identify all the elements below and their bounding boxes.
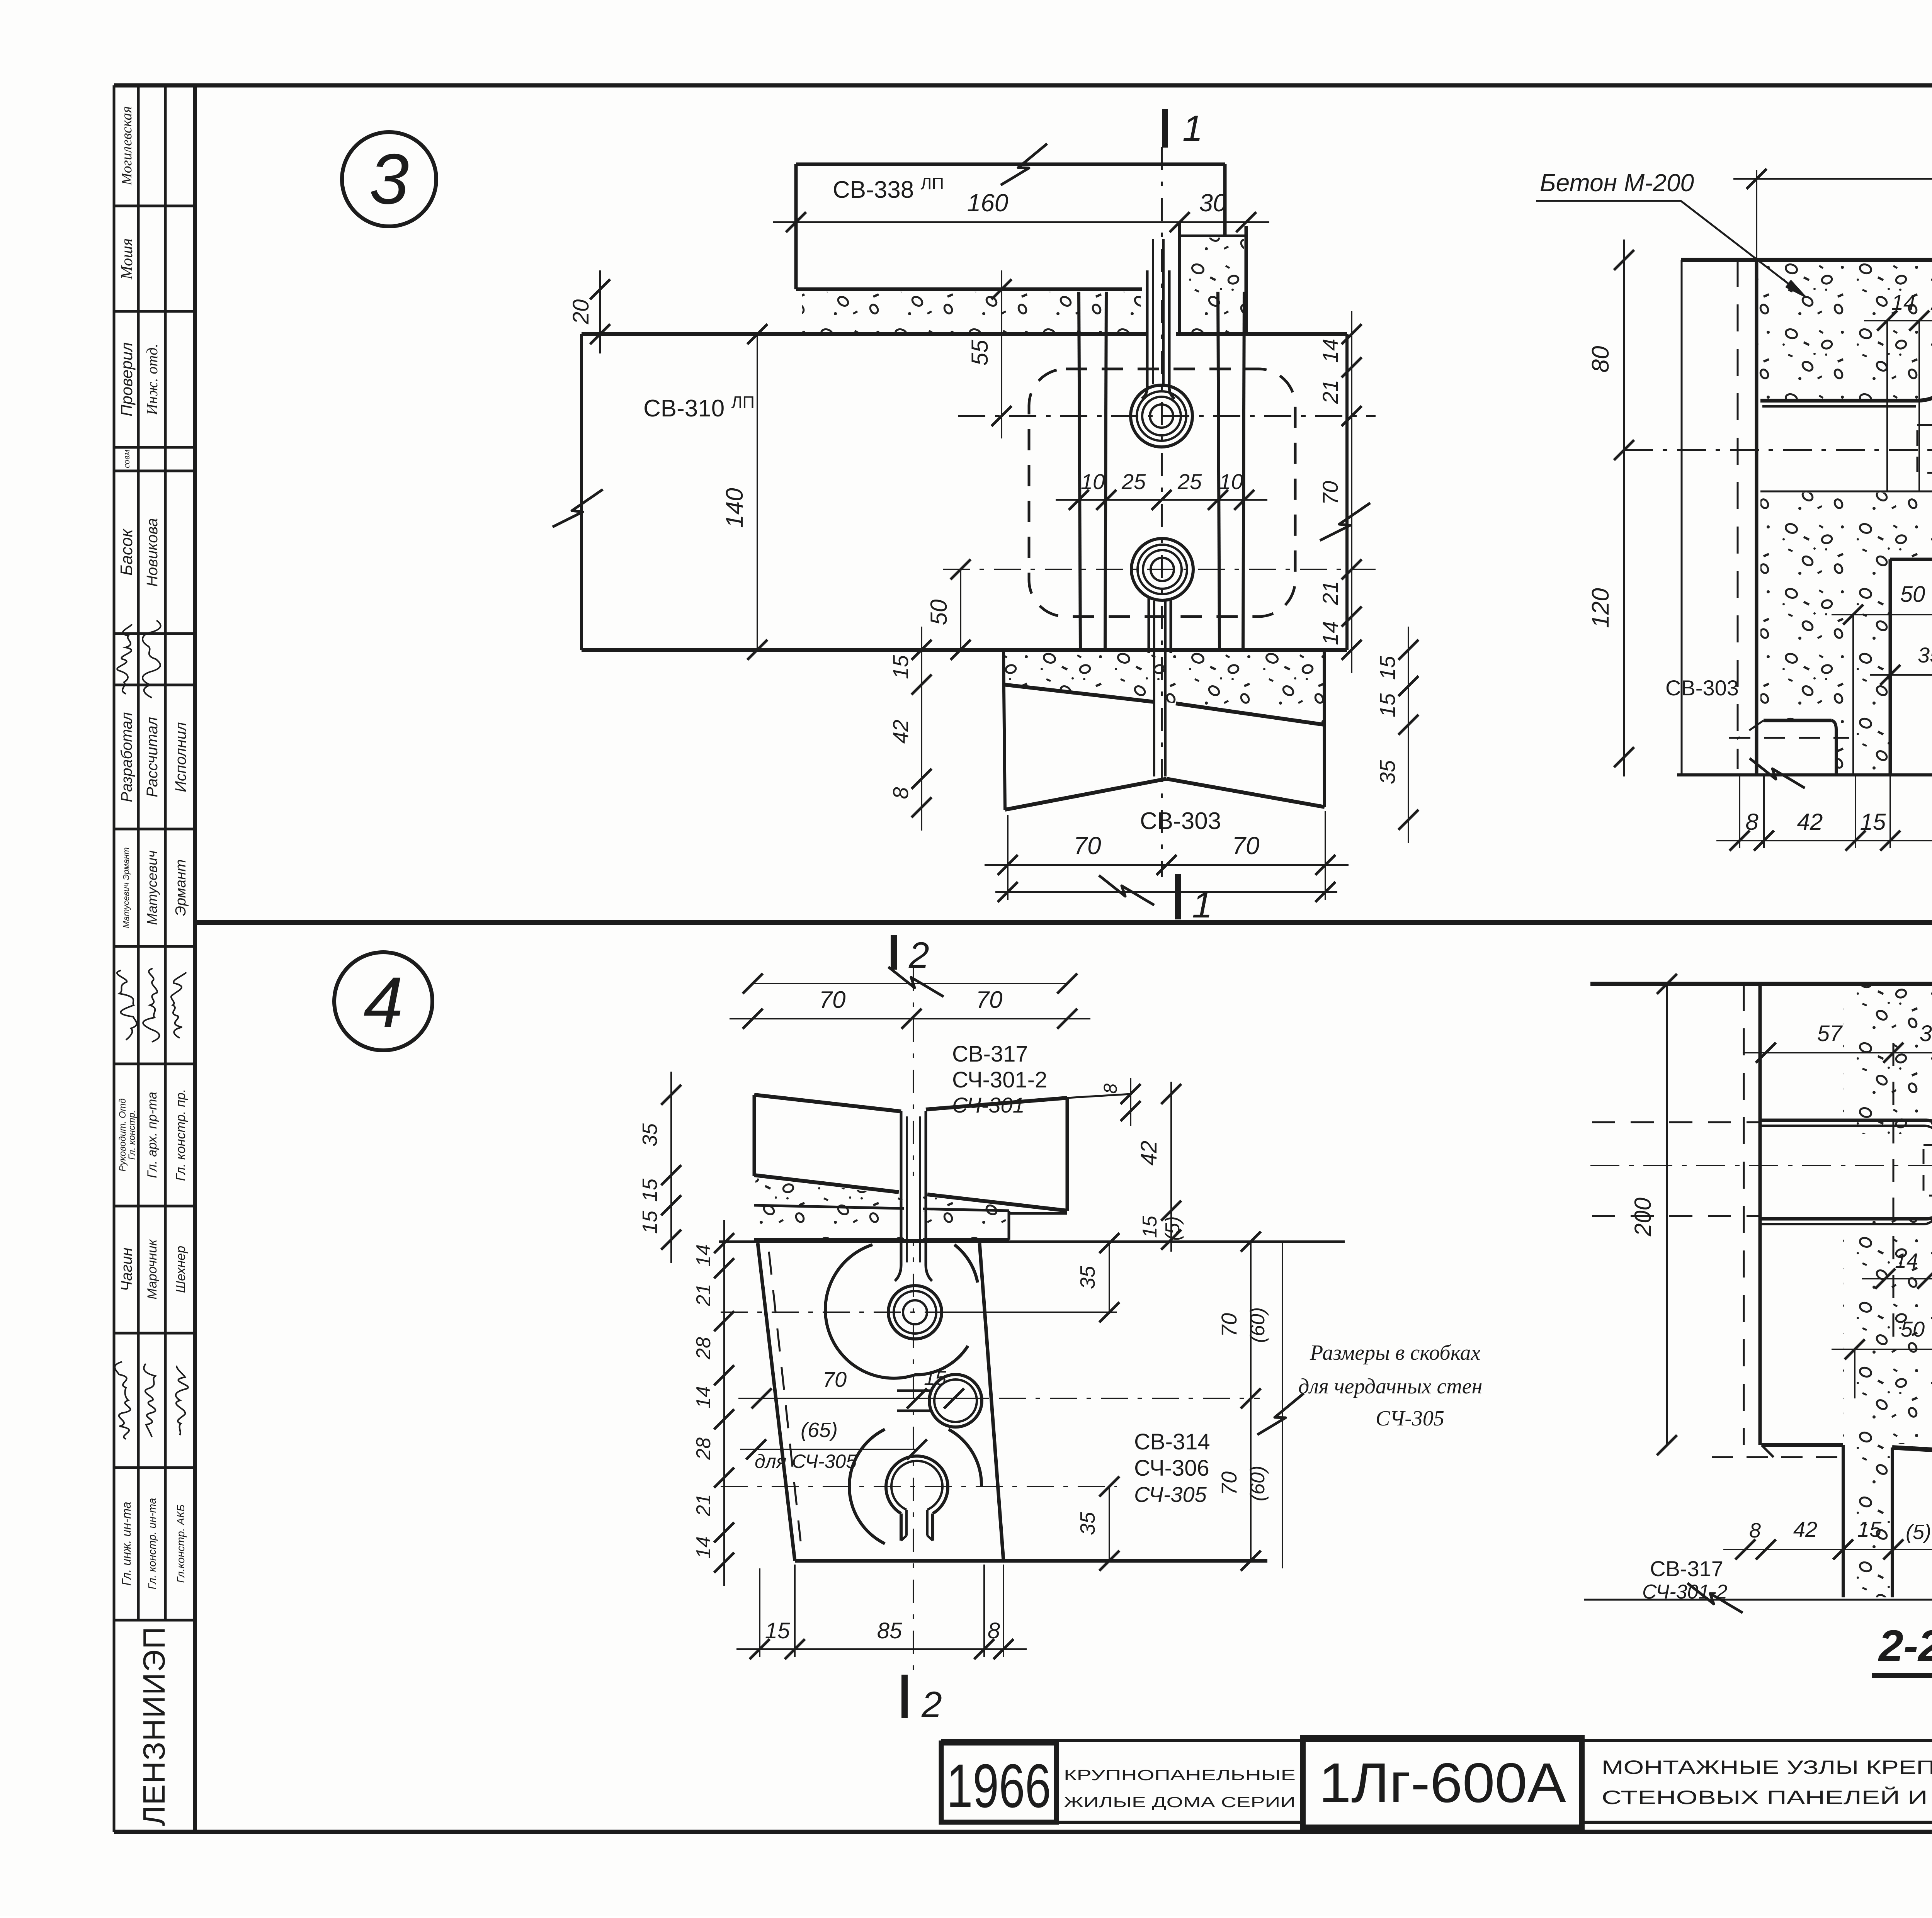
hidden dashed wire extensions (1592, 1121, 1760, 1123)
svg-text:120: 120 (1587, 588, 1614, 628)
svg-text:70: 70 (1318, 481, 1342, 505)
top edge of section 2-2 (1590, 982, 1932, 986)
dims 14 21 70 21 14 (1864, 320, 1932, 321)
dim 50 lower left (1832, 614, 1932, 615)
upper slab concrete (stipple) (1759, 262, 1932, 401)
bottom edge lower panel (795, 1559, 1267, 1563)
center lines drawing 4 (721, 1312, 1117, 1313)
svg-text:42: 42 (1793, 1517, 1817, 1541)
svg-text:30: 30 (1199, 189, 1227, 217)
svg-text:Новикова: Новикова (144, 518, 161, 587)
hidden edge dashed left (1737, 260, 1739, 769)
right dim lines 70(60) x2 (1250, 1242, 1252, 1561)
loop anchor upper circles (1131, 385, 1192, 447)
title block top edge (941, 1739, 1932, 1742)
joint groove edges right panel (1218, 292, 1219, 650)
svg-text:15: 15 (638, 1178, 662, 1202)
svg-text:42: 42 (1797, 809, 1823, 835)
mortar strip under band (stipple) (1005, 652, 1323, 723)
svg-text:Руководит. Отд: Руководит. Отд (117, 1098, 128, 1171)
hidden washer dashes left (1917, 425, 1932, 473)
svg-text:(65): (65) (801, 1419, 838, 1442)
svg-text:50: 50 (926, 600, 952, 625)
svg-text:15: 15 (1375, 656, 1400, 680)
narrow joint strip below (stipple) (1845, 1445, 1892, 1597)
svg-text:Проверил: Проверил (117, 342, 136, 416)
svg-text:21: 21 (1318, 581, 1342, 605)
center line upper anchor (958, 415, 1376, 417)
dim 20 left of mortar bed (599, 270, 601, 353)
bottom dim row 8 42 15 70 70 20 (1716, 840, 1932, 841)
svg-text:Матусевич: Матусевич (144, 850, 160, 925)
svg-text:70: 70 (1217, 1471, 1241, 1495)
wires to anchor (1760, 1120, 1932, 1138)
svg-text:15: 15 (638, 1210, 662, 1234)
break symbol right band edge (1320, 503, 1370, 540)
dim 8 right small (1130, 1078, 1131, 1126)
svg-text:Бетон М-200: Бетон М-200 (1540, 169, 1694, 197)
box series name (1056, 1821, 1303, 1824)
rod flare into loop (895, 1265, 901, 1281)
left dims 15 42 8 (921, 627, 922, 831)
svg-text:15: 15 (765, 1618, 790, 1643)
svg-text:совм: совм (122, 450, 132, 468)
svg-text:160: 160 (967, 189, 1009, 217)
svg-text:15: 15 (924, 1367, 947, 1390)
dim 50 (1832, 1349, 1932, 1350)
sheet frame bottom border (114, 1830, 1932, 1834)
svg-text:(5): (5) (1162, 1216, 1184, 1241)
lower-left concrete (stipple) (1760, 493, 1932, 775)
svg-text:140: 140 (721, 488, 748, 528)
dims 14 21 35 35 21 14 (1862, 1278, 1932, 1279)
white slot for rod through bands (904, 1176, 923, 1239)
slab soffit left with anchor wire hook (1760, 380, 1932, 401)
svg-text:21: 21 (692, 1494, 715, 1517)
svg-text:СВ-303: СВ-303 (1140, 808, 1221, 834)
left dim column 80 120 (1623, 240, 1625, 776)
dims 35 right upper (1109, 1243, 1110, 1312)
svg-text:21: 21 (1318, 380, 1342, 404)
svg-text:70: 70 (976, 987, 1003, 1013)
section mark 2 bottom (901, 1675, 908, 1718)
svg-text:Исполнил: Исполнил (172, 722, 189, 792)
svg-text:Басок: Басок (117, 528, 136, 576)
svg-text:42: 42 (1136, 1141, 1162, 1166)
svg-text:8: 8 (988, 1618, 1000, 1643)
dims 35 12 (1870, 674, 1932, 676)
svg-text:МОНТАЖНЫЕ УЗЛЫ КРЕПЛЕНИЯ ВН: МОНТАЖНЫЕ УЗЛЫ КРЕПЛЕНИЯ ВНУТРЕННИХ (1602, 1757, 1932, 1778)
svg-text:28: 28 (692, 1437, 715, 1460)
white wire channel (1762, 1134, 1932, 1219)
hidden dashed vertical (1743, 984, 1745, 1445)
top edge of section (1681, 258, 1932, 262)
bottom dims 8 42 15 (5) 70 70 with 60 60 (1723, 1549, 1932, 1550)
svg-text:Эрмант: Эрмант (173, 860, 189, 916)
svg-text:1: 1 (1182, 108, 1203, 149)
dims 35 right lower (1109, 1486, 1110, 1561)
dim line 160 / 30 (773, 221, 1269, 223)
anchor rod upper (1146, 270, 1149, 387)
dims 57 35 35 top (1743, 1052, 1932, 1053)
svg-text:(5): (5) (1906, 1520, 1931, 1544)
svg-text:Гл. констр. пр.: Гл. констр. пр. (173, 1089, 188, 1181)
svg-text:70: 70 (1073, 832, 1101, 860)
dim (65) для СЧ-305 (740, 1449, 917, 1450)
bottom left step (1762, 1443, 1843, 1447)
svg-text:1: 1 (1192, 885, 1213, 926)
projection line left (1666, 984, 1668, 1445)
svg-text:(60): (60) (1247, 1466, 1269, 1501)
svg-text:(60): (60) (1247, 1307, 1269, 1343)
svg-text:Матусевич Эрмант: Матусевич Эрмант (121, 847, 131, 928)
dims 10 25 25 10 (1056, 499, 1267, 501)
svg-text:14: 14 (692, 1244, 715, 1267)
svg-text:15: 15 (888, 655, 913, 679)
svg-text:СЧ-301-2: СЧ-301-2 (1642, 1581, 1728, 1603)
upper panel CB-317 outline (753, 1095, 756, 1176)
floor joint line long (719, 1240, 1345, 1243)
svg-text:10: 10 (1219, 469, 1243, 494)
concrete mass (stipple) (1762, 986, 1932, 1464)
svg-text:85: 85 (877, 1618, 902, 1643)
anchor rod lower (1148, 598, 1150, 653)
svg-text:70: 70 (823, 1367, 847, 1391)
svg-text:14: 14 (1891, 290, 1915, 314)
svg-text:Мошя: Мошя (118, 238, 136, 280)
horizontal divider between node 3 row and node 4 row (195, 920, 1932, 925)
svg-text:20: 20 (568, 299, 594, 325)
svg-text:50: 50 (1900, 582, 1925, 607)
svg-text:Размеры в скобках: Размеры в скобках (1310, 1341, 1481, 1365)
left dims 35 15 15 (670, 1072, 672, 1263)
svg-text:21: 21 (692, 1284, 715, 1306)
node number 3 circle (342, 132, 436, 226)
pocket arc around upper loop (825, 1245, 968, 1378)
svg-text:50: 50 (1901, 1317, 1925, 1341)
dims 70 70 (730, 1018, 1090, 1019)
svg-text:35: 35 (1375, 760, 1400, 784)
svg-text:15: 15 (1139, 1215, 1161, 1238)
svg-text:СВ-317: СВ-317 (1650, 1556, 1723, 1581)
svg-text:2: 2 (908, 935, 929, 976)
lower extension line with break (995, 891, 1337, 893)
dim 200 (1657, 974, 1677, 994)
svg-text:1Лг-600А: 1Лг-600А (1319, 1752, 1566, 1814)
svg-text:55: 55 (967, 340, 993, 365)
sloped panel bottom edge (754, 1175, 899, 1192)
horizontal center line of joint (1624, 449, 1932, 451)
svg-text:28: 28 (692, 1337, 715, 1360)
svg-text:КРУПНОПАНЕЛЬНЫЕ: КРУПНОПАНЕЛЬНЫЕ (1064, 1767, 1296, 1784)
svg-text:14: 14 (1895, 1249, 1918, 1272)
rough joint lines lower region (1760, 491, 1932, 493)
svg-text:35: 35 (1076, 1512, 1099, 1535)
svg-text:8: 8 (1749, 1519, 1761, 1542)
section mark 2 top (891, 935, 897, 970)
svg-text:Рассчитал: Рассчитал (144, 717, 161, 797)
break symbol left band edge (553, 489, 603, 527)
svg-text:42: 42 (888, 720, 913, 744)
svg-text:Гл. инж. ин-та: Гл. инж. ин-та (119, 1502, 133, 1585)
svg-text:СЧ-301-2: СЧ-301-2 (952, 1067, 1047, 1092)
svg-text:для чердачных стен: для чердачных стен (1298, 1374, 1482, 1398)
dims 70 15 at link (738, 1398, 989, 1399)
dim 140 (757, 334, 758, 650)
svg-text:35: 35 (1918, 643, 1932, 667)
section mark 1 bottom (1175, 874, 1181, 919)
slot to link circle (897, 1390, 930, 1392)
svg-text:70: 70 (1232, 832, 1260, 860)
svg-text:70: 70 (1217, 1313, 1241, 1337)
right dims 42 15 (5) (1170, 1082, 1172, 1252)
svg-text:25: 25 (1121, 469, 1146, 494)
lower panel CB-314 left edge sloped (758, 1243, 795, 1561)
svg-text:Гл.констр. АКБ: Гл.констр. АКБ (175, 1504, 187, 1583)
break symbol on top edge (1001, 144, 1047, 185)
main wall panel CB-310 band (582, 332, 1147, 336)
svg-text:СЧ-306: СЧ-306 (1134, 1456, 1209, 1481)
small link circle (929, 1374, 982, 1427)
svg-text:8: 8 (1100, 1083, 1121, 1094)
lower wire (1760, 1202, 1932, 1219)
joint groove edges left panel (1079, 292, 1080, 650)
left concrete boundary (1755, 260, 1759, 774)
svg-text:57: 57 (1817, 1021, 1843, 1046)
table row: signatures (117, 624, 132, 694)
svg-text:70: 70 (819, 987, 846, 1013)
joint concrete fill right (stipple) (1182, 238, 1244, 332)
svg-text:Шехнер: Шехнер (173, 1246, 188, 1293)
anchor rod in panel (900, 1111, 903, 1265)
table row: signatures (117, 970, 137, 1040)
svg-text:2-2: 2-2 (1878, 1621, 1932, 1671)
center line horizontal 2-2 (1590, 1165, 1932, 1166)
left signature table grid (113, 85, 116, 1832)
svg-text:СВ-303: СВ-303 (1665, 676, 1739, 700)
main title box (1582, 1821, 1932, 1824)
dashed mounting zone rounded rectangle (1029, 369, 1295, 617)
sloped top of lower panel (1892, 1447, 1932, 1466)
svg-text:Чагин: Чагин (118, 1247, 135, 1291)
svg-text:Марочник: Марочник (145, 1238, 160, 1299)
svg-text:3: 3 (369, 139, 409, 219)
section line 2-2 vertical axis (913, 968, 914, 1673)
svg-text:1966: 1966 (947, 1751, 1051, 1820)
bottom dims 15 85 8 (736, 1648, 1027, 1650)
box 1Лг-600А (1303, 1738, 1582, 1827)
loop anchor lower circles (1131, 539, 1193, 600)
lower panel CB-303 outline (1003, 650, 1005, 810)
svg-text:10: 10 (1081, 469, 1105, 494)
svg-text:СЧ-305: СЧ-305 (1134, 1482, 1207, 1507)
table row: signatures (115, 1362, 130, 1439)
mortar joint strips (stipple) (755, 1178, 1066, 1238)
svg-text:Разработал: Разработал (118, 712, 135, 802)
lower loop circles with keyhole (886, 1456, 948, 1514)
svg-text:ЖИЛЫЕ ДОМА СЕРИИ: ЖИЛЫЕ ДОМА СЕРИИ (1064, 1794, 1296, 1811)
right dims 15 15 35 (1408, 627, 1409, 843)
bottom edge of section with breaks (1677, 773, 1932, 776)
svg-text:14: 14 (692, 1536, 715, 1559)
hidden washer dashed rect (1923, 1145, 1932, 1196)
dim 50 lower (960, 569, 961, 650)
svg-text:Могилевская: Могилевская (119, 106, 135, 186)
svg-text:ЛЕНЗНИИЭП: ЛЕНЗНИИЭП (137, 1626, 171, 1826)
svg-text:35: 35 (1076, 1266, 1099, 1289)
section line 1-1 vertical axis (1161, 147, 1163, 877)
svg-text:35: 35 (1920, 1021, 1932, 1046)
svg-text:80: 80 (1587, 346, 1614, 373)
section mark 1 top (1162, 109, 1168, 148)
svg-text:СВ-314: СВ-314 (1134, 1429, 1210, 1454)
svg-text:21: 21 (1930, 290, 1932, 314)
svg-text:14: 14 (1318, 339, 1342, 363)
svg-text:для СЧ-305: для СЧ-305 (755, 1451, 857, 1472)
joint strip edges (1842, 1445, 1845, 1597)
svg-text:Гл. констр.: Гл. констр. (127, 1110, 137, 1160)
dim 217 (1733, 178, 1932, 180)
svg-text:15: 15 (1857, 1517, 1882, 1541)
center line lower anchor (943, 569, 1376, 570)
left concrete edge (1759, 984, 1762, 1445)
svg-text:Гл. констр. ин-та: Гл. констр. ин-та (146, 1498, 158, 1590)
svg-text:СВ-317: СВ-317 (952, 1041, 1028, 1067)
svg-text:Гл. арх. пр-та: Гл. арх. пр-та (145, 1092, 160, 1178)
svg-text:СЧ-305: СЧ-305 (1376, 1407, 1444, 1430)
node number 4 circle (334, 952, 432, 1050)
svg-text:Инж. отд.: Инж. отд. (143, 343, 161, 415)
svg-text:15: 15 (1375, 693, 1400, 717)
projection line left (1681, 260, 1683, 774)
mortar bed strip under CB-338 (stipple) (802, 292, 1141, 332)
pocket arc around lower loop (849, 1429, 885, 1544)
bottom break line (1584, 1599, 1932, 1601)
upper loop circles (888, 1286, 942, 1339)
svg-text:СТЕНОВЫХ ПАНЕЛЕЙ И СТЕН ЧЕ: СТЕНОВЫХ ПАНЕЛЕЙ И СТЕН ЧЕРДАКА (1602, 1786, 1932, 1808)
panel CB-338 top rectangle (796, 163, 1225, 166)
svg-text:35: 35 (638, 1123, 662, 1147)
svg-text:14: 14 (1318, 621, 1342, 645)
svg-text:2: 2 (921, 1684, 942, 1725)
lower panel right edge sloped (980, 1243, 1003, 1561)
top extension line with break (753, 983, 1067, 984)
svg-text:8: 8 (1745, 809, 1759, 835)
right dim column 14 21 70 21 14 (1351, 311, 1352, 673)
dashed center vertical (1893, 1043, 1895, 1352)
left dim column 14 21 28 14 28 21 14 (723, 1220, 725, 1586)
svg-text:14: 14 (692, 1386, 715, 1408)
svg-text:25: 25 (1177, 469, 1202, 494)
box 1966 (941, 1743, 1056, 1822)
svg-text:8: 8 (888, 787, 913, 799)
svg-text:15: 15 (1860, 809, 1886, 835)
sheet frame top border (114, 83, 1932, 88)
dim 55 (1001, 270, 1002, 438)
svg-text:4: 4 (364, 963, 403, 1042)
bottom dims 70 70 (985, 864, 1349, 866)
